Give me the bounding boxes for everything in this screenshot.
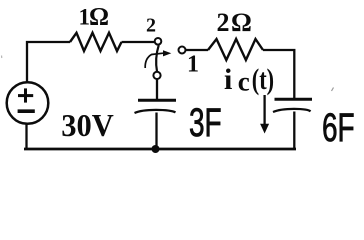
wire C2 to bottom [293,112,295,151]
svg-text:2: 2 [217,8,230,37]
wire terminal 1 to R2 [186,49,208,51]
svg-text:i: i [224,63,232,96]
capacitor C2 bottom plate [273,109,311,112]
svg-text:(t): (t) [252,63,274,96]
switch terminal 2 [155,38,162,45]
wire R2 to right corner down to C2 [263,50,294,99]
junction dot [152,145,160,153]
svg-text:6F: 6F [322,106,355,150]
wire top-left [27,42,70,83]
wire R1 to switch terminal 2 [122,41,155,43]
switch blade [156,45,159,71]
switch motion arrow [145,53,163,68]
voltage source V1 [7,82,49,124]
svg-text:30V: 30V [61,107,114,143]
svg-text:Ω: Ω [89,4,109,31]
speck [332,88,334,92]
switch terminal 1 [179,47,186,54]
resistor R2 [208,39,263,60]
svg-text:3F: 3F [189,101,222,145]
svg-text:c: c [238,67,250,97]
wire bottom [24,148,296,151]
svg-text:1: 1 [187,52,199,78]
wire switch common down to C1 [156,79,158,99]
capacitor C1 top plate [138,99,176,102]
switch common terminal [153,72,160,79]
capacitor C2 top plate [275,98,313,101]
resistor R1 [70,33,122,51]
capacitor C1 bottom plate [135,110,176,113]
current arrow i_c [263,95,265,125]
speck left edge [1,56,3,59]
wire source to bottom [25,124,27,149]
wire C1 to bottom [155,113,157,150]
svg-text:Ω: Ω [231,8,252,37]
svg-text:2: 2 [146,15,156,37]
